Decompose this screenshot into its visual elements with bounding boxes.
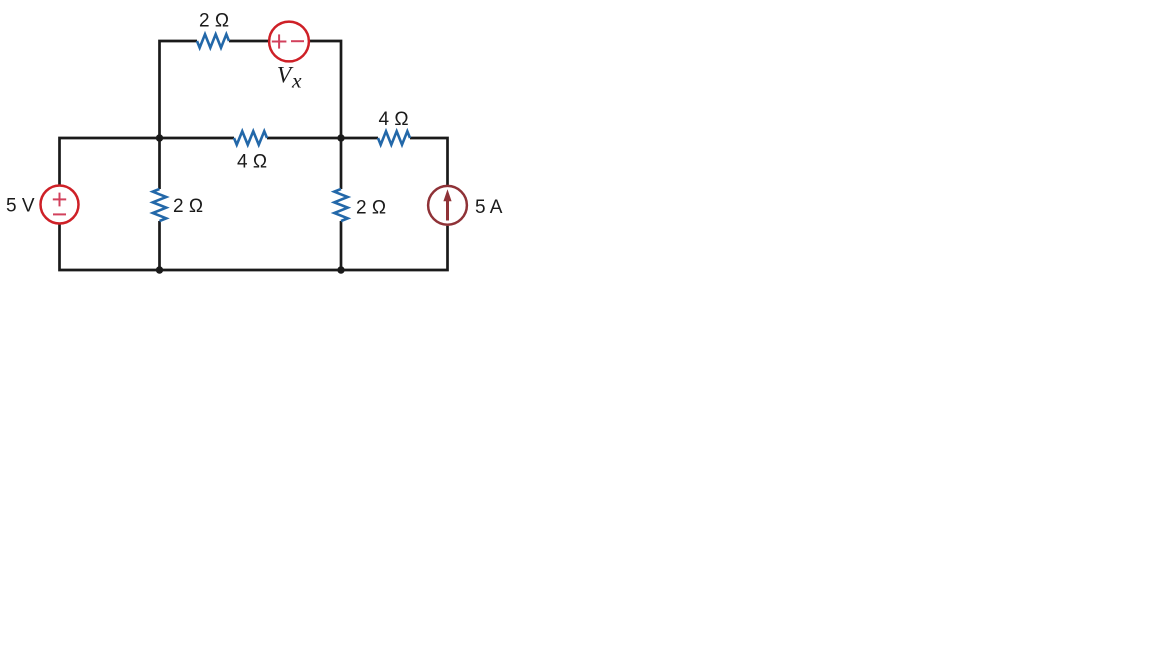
wire from source Vx to right top corner down to node B bbox=[310, 41, 342, 138]
resistor 2ohm middle vertical bbox=[334, 189, 348, 221]
node B junction dot bbox=[337, 134, 344, 141]
voltage source 5V circle bbox=[41, 186, 79, 224]
svg-text:2 Ω: 2 Ω bbox=[173, 196, 203, 217]
wire node B down to R5 bbox=[340, 138, 343, 189]
current source 5A circle bbox=[428, 186, 467, 225]
wire top-left: node A up and across to R1 bbox=[160, 41, 198, 138]
voltage source 5V plus sign bbox=[53, 193, 66, 207]
wire R4 to bottom rail bbox=[158, 221, 161, 270]
svg-text:5 V: 5 V bbox=[6, 196, 35, 217]
bottom-left junction dot bbox=[156, 266, 163, 273]
current source 5A arrow bbox=[443, 189, 451, 220]
wire middle row between R2 and R3 bbox=[267, 137, 378, 140]
svg-text:5 A: 5 A bbox=[475, 197, 503, 218]
wire bottom rail bbox=[60, 225, 448, 271]
wire between R1 and source Vx bbox=[229, 40, 269, 43]
wire node A down to R4 bbox=[158, 138, 161, 189]
resistor 2ohm left vertical bbox=[153, 189, 167, 221]
wire R5 to bottom rail bbox=[340, 221, 343, 270]
resistor 4ohm middle horizontal bbox=[234, 131, 267, 145]
node A junction dot bbox=[156, 134, 163, 141]
voltage source 5V minus sign bbox=[53, 213, 66, 215]
svg-text:x: x bbox=[291, 69, 302, 93]
svg-text:4 Ω: 4 Ω bbox=[237, 152, 267, 173]
svg-text:2 Ω: 2 Ω bbox=[199, 11, 229, 32]
svg-text:4 Ω: 4 Ω bbox=[378, 109, 408, 130]
svg-text:2 Ω: 2 Ω bbox=[356, 198, 386, 219]
voltage source Vx minus sign bbox=[291, 40, 304, 42]
resistor 4ohm right horizontal bbox=[378, 131, 410, 145]
resistor 2ohm top horizontal bbox=[197, 34, 229, 48]
voltage source Vx plus sign bbox=[272, 34, 287, 48]
voltage source Vx circle bbox=[269, 22, 309, 62]
wire left rail top + middle row left section bbox=[60, 138, 235, 185]
wire right corner from R3 down to current source bbox=[410, 138, 448, 185]
bottom-right junction dot bbox=[337, 266, 344, 273]
